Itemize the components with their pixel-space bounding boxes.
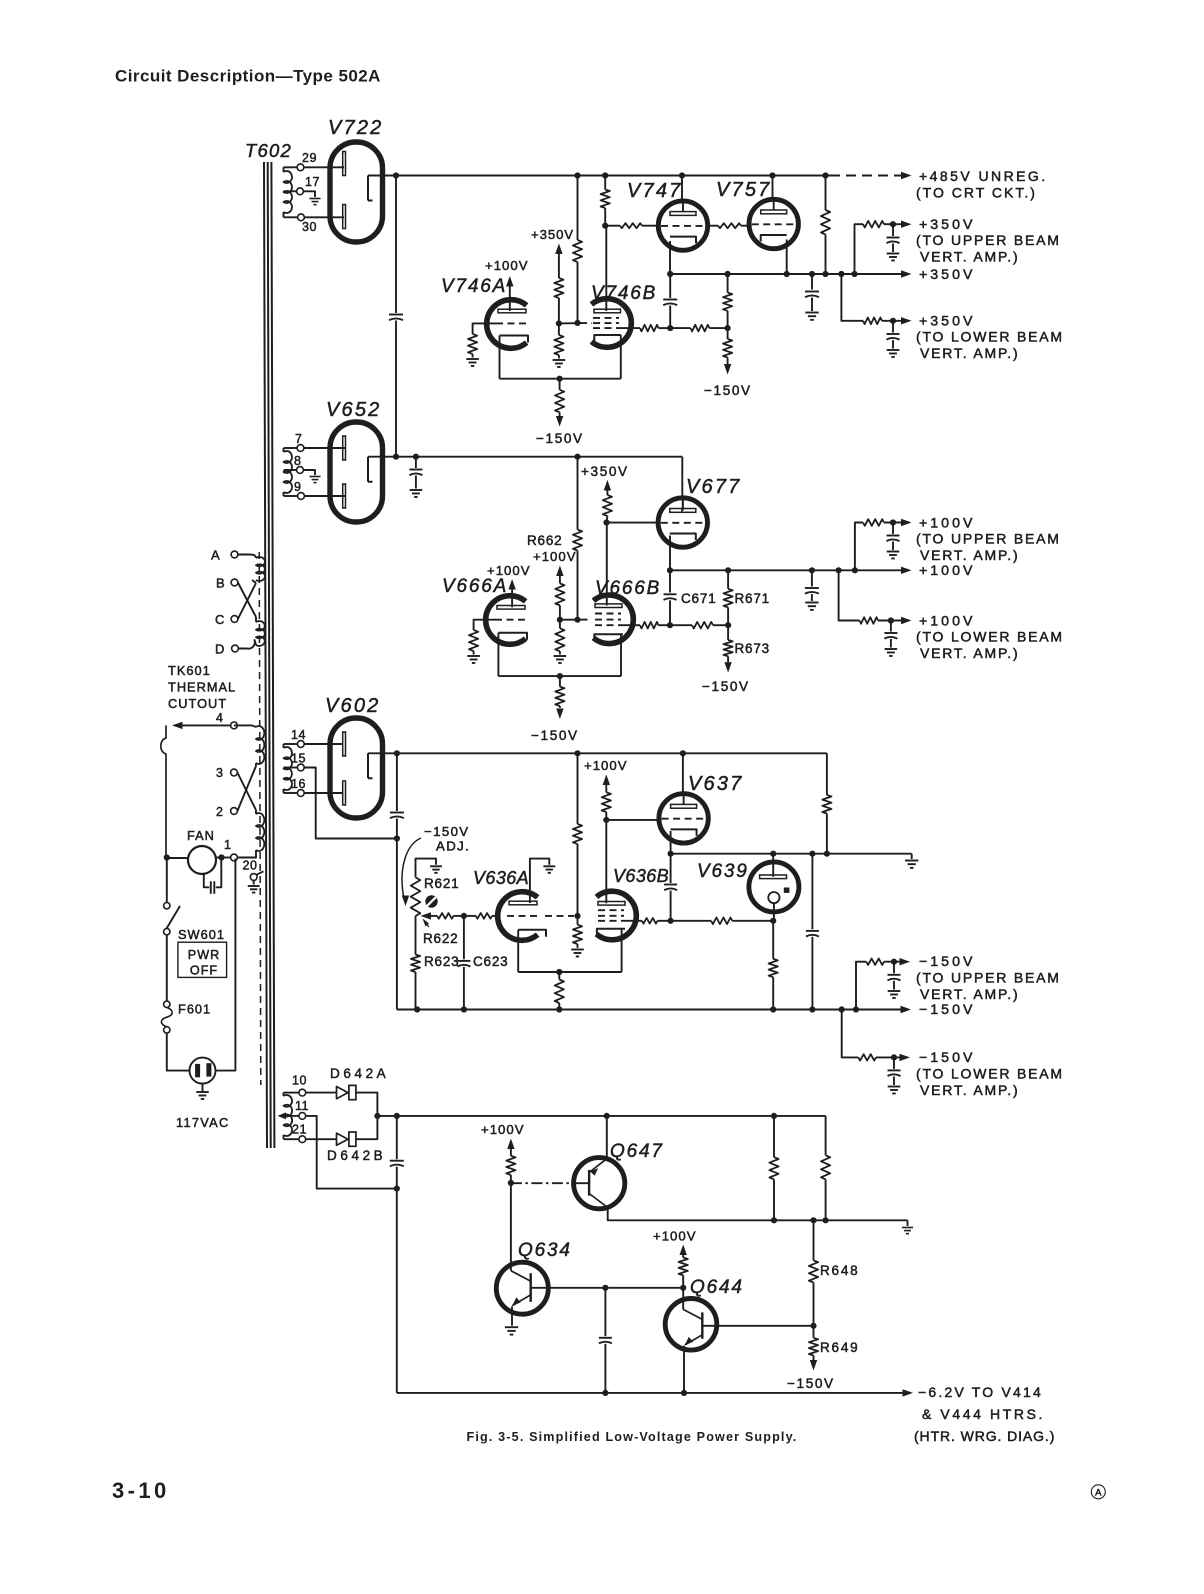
svg-text:+100V: +100V <box>485 258 529 273</box>
resistor R662 <box>573 530 582 551</box>
svg-text:B: B <box>216 576 225 591</box>
ground Q647 collector line <box>907 1220 909 1226</box>
node +350 rail x=786.7 <box>784 271 790 277</box>
arrow R649 -150V <box>810 1360 817 1371</box>
tube V639 plate <box>760 875 787 879</box>
node +100 line V677 cathode <box>667 567 673 573</box>
svg-text:F601: F601 <box>178 1002 211 1017</box>
wire V747 cathode lead down <box>669 241 671 274</box>
resistor R649 <box>813 1326 815 1338</box>
svg-text:21: 21 <box>292 1123 307 1137</box>
wire ground line <box>671 853 912 855</box>
node +100 line x=838.6 <box>836 567 842 573</box>
svg-text:+100V: +100V <box>919 516 975 532</box>
resistor +100 upper beam <box>863 519 884 526</box>
node +350 rail x=825.5 <box>822 271 828 277</box>
tube V666A plate <box>497 606 525 610</box>
wire winding to terminal 21 <box>284 1138 299 1140</box>
svg-text:PWR: PWR <box>188 948 220 962</box>
wire Q634 emitter to ground <box>511 1306 513 1325</box>
plug prong left <box>195 1064 200 1077</box>
svg-text:(TO LOWER BEAM: (TO LOWER BEAM <box>916 1066 1064 1082</box>
fuse F601 contact bottom <box>164 1027 170 1033</box>
wire terminal 16 to V602 plate 2 <box>304 792 342 794</box>
arrow +100V Q647 <box>507 1139 514 1150</box>
tube V602 envelope <box>330 718 383 818</box>
arrow -150 upper beam <box>900 958 911 965</box>
node +100 line x=811.9 <box>809 567 815 573</box>
svg-text:VERT. AMP.): VERT. AMP.) <box>920 986 1019 1002</box>
svg-text:R662: R662 <box>527 533 562 548</box>
terminal 30 <box>298 214 305 221</box>
wire terminal 15 to filter mid <box>304 768 397 839</box>
wire V757 cathode to +350 rail <box>786 240 788 275</box>
svg-text:R671: R671 <box>735 591 770 606</box>
svg-text:V677: V677 <box>686 476 742 498</box>
node V602 rail V637 plate <box>680 750 686 756</box>
svg-text:17: 17 <box>305 175 320 189</box>
wire -6.2V rail <box>397 1392 903 1394</box>
capacitor fan motor <box>210 881 212 894</box>
wire V757 plate to +485 rail <box>772 176 774 201</box>
wire R662 top <box>577 457 579 530</box>
wire terminal 9 to V652 plate 2 <box>304 495 346 497</box>
wire plug to ground <box>202 1084 204 1091</box>
wire Q647 base to Q634 collector <box>510 1183 512 1240</box>
resistor V746B output 1 <box>640 325 659 332</box>
svg-text:(TO UPPER BEAM: (TO UPPER BEAM <box>916 970 1061 986</box>
capacitor +350 rail filter <box>811 274 813 290</box>
resistor R622a wiper <box>437 913 453 919</box>
ground -150 upper beam <box>888 990 901 992</box>
resistor +100 to Q647 base <box>506 1156 515 1175</box>
tube V666B grids <box>595 613 621 615</box>
wire +100 lower beam branch <box>839 570 860 620</box>
triode V637 envelope <box>659 794 708 843</box>
wire V746A cathode to tail rail <box>499 336 501 379</box>
wire V636B output mid <box>671 920 712 922</box>
node D642 output <box>374 1113 380 1119</box>
potentiometer R621 <box>411 877 421 916</box>
svg-text:+100V: +100V <box>533 549 577 564</box>
wire winding to terminal 7 <box>284 447 298 449</box>
arrow -150V output <box>901 1006 912 1013</box>
transistor Q644 <box>665 1299 717 1351</box>
tube V666B cathode <box>594 634 623 641</box>
svg-text:+350V: +350V <box>581 464 629 479</box>
wire V677 plate lead <box>682 497 684 511</box>
node +350 upper beam <box>890 221 896 227</box>
wire V637 cathode lead <box>670 831 672 854</box>
resistor V746B output 2 <box>691 325 710 332</box>
wire crossover B <box>238 583 256 618</box>
svg-text:T602: T602 <box>245 140 292 161</box>
resistor V636 grid bias lower <box>577 916 579 925</box>
wire V666B output <box>622 624 640 626</box>
ground -150 lower beam <box>888 1086 901 1088</box>
ground +100 line filter <box>811 594 813 601</box>
wire V746 tail rail <box>500 378 621 380</box>
resistor +350 upper beam <box>863 221 884 228</box>
svg-text:V637: V637 <box>688 773 744 795</box>
wire R662 bottom <box>577 551 579 620</box>
wire terminal 17 to ground <box>303 191 315 197</box>
resistor +100 to Q644 base <box>679 1258 688 1276</box>
resistor R623 <box>411 955 420 973</box>
resistor V747-V757 coupling <box>718 223 741 228</box>
arrow -150V V746B <box>724 364 731 375</box>
fuse F601 body <box>161 1008 172 1027</box>
triode V757 plate <box>761 210 787 214</box>
wire V666B plate lead <box>606 523 608 606</box>
wire +350V rail <box>670 273 901 275</box>
arrow +100 upper beam <box>901 519 912 526</box>
svg-text:V757: V757 <box>716 179 772 201</box>
arrow -6.2V output <box>903 1389 914 1396</box>
primary winding 4-3 section <box>256 726 264 764</box>
svg-text:TK601: TK601 <box>168 663 211 678</box>
wire V666B grid dashes <box>581 619 593 621</box>
wire V746B output <box>620 327 640 329</box>
wire crossover 3 <box>237 773 256 811</box>
svg-text:VERT. AMP.): VERT. AMP.) <box>920 645 1019 661</box>
svg-text:Circuit Description—Type 502A: Circuit Description—Type 502A <box>115 67 381 86</box>
node +485 rail x=772.5 <box>769 172 775 178</box>
node -150 rail x=463.9 <box>461 1006 467 1012</box>
wire +350 rail cap column <box>669 274 671 298</box>
svg-text:14: 14 <box>291 728 306 742</box>
wire winding to terminal 11 <box>284 1115 299 1117</box>
tube V722 plate 2 <box>343 205 346 229</box>
arrow +100V bias column <box>556 566 563 577</box>
resistor V666A grid to ground <box>469 630 478 651</box>
tube V636B plate <box>598 902 625 906</box>
svg-text:−150V: −150V <box>704 383 752 398</box>
primary winding A-B section <box>256 557 265 581</box>
resistor -150 upper beam <box>866 959 884 965</box>
fan motor circle <box>188 846 216 874</box>
tube V652 plate 2 <box>343 484 346 508</box>
triode V747 envelope <box>658 201 707 250</box>
node -150 rail x=773.2 <box>770 1006 776 1012</box>
capacitor C671 <box>669 570 671 592</box>
terminal 9 <box>298 493 305 500</box>
arrow +100V V666A plate <box>508 579 515 590</box>
svg-text:V636A: V636A <box>473 868 529 888</box>
svg-text:A: A <box>1095 1488 1102 1499</box>
node +100 upper beam <box>890 519 896 525</box>
node +485 rail x=577.5 <box>574 172 580 178</box>
svg-text:(HTR. WRG. DIAG.): (HTR. WRG. DIAG.) <box>914 1428 1055 1444</box>
tube V636B cathode <box>597 929 625 936</box>
resistor V666B output 2 <box>692 622 713 629</box>
wire winding to terminal 16 <box>284 792 298 794</box>
node V652 rail cap stub <box>413 454 419 460</box>
svg-text:29: 29 <box>302 151 317 165</box>
wire V637 plate to V602 rail <box>682 753 684 794</box>
svg-text:THERMAL: THERMAL <box>168 680 236 695</box>
svg-text:(TO LOWER BEAM: (TO LOWER BEAM <box>916 629 1064 645</box>
wire fan right lead <box>216 857 231 859</box>
resistor V636B output 2 <box>711 918 732 925</box>
resistor V666 bias lower <box>559 620 561 629</box>
svg-text:Q647: Q647 <box>610 1141 664 1162</box>
tube V636A grid <box>507 915 537 917</box>
resistor V666B output 1 <box>640 622 658 629</box>
ground Q634 emitter <box>505 1326 518 1328</box>
node V746B output a <box>667 325 673 331</box>
node -150 rail x=559.3 <box>556 1006 562 1012</box>
node R648 R649 junction <box>810 1323 816 1329</box>
wire V636A plate to ground bracket <box>530 859 549 903</box>
node fan right <box>218 854 224 860</box>
triode V677 plate <box>670 509 696 513</box>
tube V652 envelope <box>330 422 383 522</box>
node -150 rail x=841.7 <box>839 1006 845 1012</box>
wire V602 output <box>368 752 397 754</box>
wire V666B cathode to tail rail <box>620 634 622 676</box>
wire V652 rail corner to V677 plate <box>681 457 683 498</box>
node V746 grid bias <box>556 320 562 326</box>
wire +485V rail <box>396 175 830 177</box>
node raw line Q647 emitter <box>604 1113 610 1119</box>
arrow -150 lower beam <box>900 1054 911 1061</box>
tube V652 cathode <box>368 457 373 482</box>
thermal cutout element TK601 <box>161 725 166 857</box>
circled A mark <box>1091 1485 1105 1499</box>
primary winding C-D section <box>256 621 265 646</box>
node Q647 collector line r1 <box>771 1217 777 1223</box>
terminal 14 <box>297 741 304 748</box>
primary winding 2-1 section <box>256 813 264 851</box>
svg-text:16: 16 <box>291 777 306 791</box>
svg-text:Q634: Q634 <box>518 1240 572 1261</box>
svg-text:R649: R649 <box>820 1340 859 1355</box>
node -150 upper beam <box>891 959 897 965</box>
node -150 rail x=856 <box>853 1006 859 1012</box>
ground R621 top <box>430 865 442 867</box>
resistor raw line to collector line 2 <box>825 1116 827 1155</box>
wire Q634 base line <box>548 1287 683 1289</box>
svg-text:V722: V722 <box>328 117 384 139</box>
tube V602 plate 2 <box>343 781 346 805</box>
ground V652 rail cap <box>410 489 423 491</box>
resistor +350 lower beam <box>863 318 882 325</box>
node -150 lower beam <box>891 1054 897 1060</box>
PWR OFF box <box>178 942 227 977</box>
wire winding to terminal 8 <box>284 469 297 471</box>
tube V722 envelope <box>330 142 383 242</box>
triode V637 grid <box>662 818 706 820</box>
resistor V666 bias upper <box>555 583 564 605</box>
wire resistor to V757 grid <box>741 225 749 227</box>
resistor V639 cathode to -150 rail <box>772 921 774 959</box>
wire +350 lower beam branch <box>841 274 863 321</box>
tube V746B grids <box>593 317 619 319</box>
svg-text:D: D <box>215 642 224 657</box>
curved arrow -150V ADJ <box>402 838 421 896</box>
tube V746A cathode <box>500 336 529 343</box>
wire V636 tail rail <box>518 971 621 973</box>
resistor V746 bias lower <box>558 323 560 335</box>
wire V652 output rail <box>396 456 682 458</box>
node raw line resistor 1 <box>771 1113 777 1119</box>
switch SW601 contact top <box>164 903 170 909</box>
wire junction to V637 grid <box>606 819 659 821</box>
node +485 rail x=605.2 <box>602 172 608 178</box>
svg-text:7: 7 <box>295 432 302 446</box>
wire crossover C <box>238 583 256 619</box>
wire SW601 to F601 <box>166 935 168 1001</box>
svg-text:R673: R673 <box>735 641 770 656</box>
svg-text:3-10: 3-10 <box>112 1478 170 1503</box>
svg-text:(TO UPPER BEAM: (TO UPPER BEAM <box>916 232 1061 248</box>
svg-text:Q644: Q644 <box>690 1277 744 1298</box>
ground terminal 8 <box>309 476 320 478</box>
node V666 grid bias <box>557 617 563 623</box>
svg-text:−150V: −150V <box>531 728 579 743</box>
wire -150 lower beam branch <box>842 1010 859 1058</box>
triode V757 envelope <box>749 199 798 248</box>
tube V636B envelope <box>596 891 636 940</box>
wire V602 rail corner column <box>826 753 828 795</box>
switch SW601 contact bottom <box>164 929 170 935</box>
svg-text:+350V: +350V <box>531 227 574 242</box>
svg-text:(TO UPPER BEAM: (TO UPPER BEAM <box>916 531 1061 547</box>
diode D642B <box>306 1138 337 1140</box>
capacitor -150 upper beam <box>893 962 895 974</box>
svg-text:20: 20 <box>243 859 258 873</box>
transformer T602 core line 1 <box>264 162 267 1148</box>
wire V677 grid to junction <box>620 522 658 524</box>
wire V636A cathode to tail rail <box>517 930 519 972</box>
wire winding to terminal 10 <box>284 1092 299 1094</box>
node Q647 collector line R648 <box>810 1217 816 1223</box>
wire V639 cathode lead <box>773 903 775 921</box>
wire +485 divider column to V746B grid <box>577 176 579 241</box>
arrow +350V bias column <box>555 244 562 255</box>
svg-text:1: 1 <box>224 838 231 852</box>
svg-text:V666A: V666A <box>442 576 508 597</box>
wire -150V rail <box>397 1009 901 1011</box>
ground plug <box>196 1091 209 1093</box>
tube V636B grids <box>598 909 624 911</box>
node -150 rail x=417.2 <box>414 1006 420 1012</box>
winding polarity arrow <box>278 1112 287 1119</box>
svg-text:C: C <box>215 612 224 627</box>
node ground line cap column <box>809 851 815 857</box>
node V746B output b <box>725 325 731 331</box>
wire V652 output <box>368 456 396 458</box>
wire terminal A to primary winding <box>238 555 256 559</box>
resistor -150 lower beam <box>858 1054 876 1060</box>
node V666B grid tie <box>574 617 580 623</box>
svg-text:V652: V652 <box>326 399 382 421</box>
svg-text:9: 9 <box>294 480 301 494</box>
arrow R673 -150V <box>724 662 731 673</box>
svg-text:VERT. AMP.): VERT. AMP.) <box>920 345 1019 361</box>
svg-text:3: 3 <box>216 766 223 780</box>
wire fan cap right lead <box>216 858 222 887</box>
node -6.2 rail Q644 emitter <box>681 1390 687 1396</box>
terminal 21 <box>299 1136 306 1143</box>
arrow +100V V746A plate <box>506 276 513 287</box>
node +100 line x=728.1 <box>725 567 731 573</box>
svg-text:+100V: +100V <box>584 758 628 773</box>
resistor V747 grid stopper <box>620 223 642 228</box>
arrow +100V V637 <box>603 775 610 786</box>
wire +100 upper beam branch <box>855 523 863 571</box>
triode V677 envelope <box>658 498 707 547</box>
svg-text:2: 2 <box>216 805 223 819</box>
node R671 bottom <box>725 622 731 628</box>
resistor +485 to V746B grid <box>573 240 582 262</box>
node +350 rail x=670.2 <box>667 271 673 277</box>
svg-text:8: 8 <box>294 454 301 468</box>
node +350 rail x=841.4 <box>838 271 844 277</box>
ground +100 lower beam <box>885 648 898 650</box>
ground at ground line end <box>911 854 913 859</box>
tube V746B envelope <box>591 299 631 348</box>
capacitor V652 rail to ground <box>415 457 417 468</box>
svg-text:10: 10 <box>292 1074 307 1088</box>
node V636 grid bias <box>574 913 580 919</box>
arrow +100V output <box>901 567 912 574</box>
node V636 tail <box>556 969 562 975</box>
svg-text:+100V: +100V <box>481 1122 525 1137</box>
svg-text:Fig. 3-5. Simplified Low-Vo: Fig. 3-5. Simplified Low-Voltage Power S… <box>467 1430 798 1444</box>
resistor R622b to V636A grid <box>464 915 476 917</box>
wire V746B grid dashes <box>580 322 592 324</box>
capacitor +350 upper beam <box>892 224 894 236</box>
winding T602 29-17-30 <box>283 167 285 172</box>
svg-text:V602: V602 <box>325 695 381 717</box>
plug prong right <box>206 1063 211 1076</box>
svg-text:−150V: −150V <box>919 954 975 970</box>
ground +100 upper beam <box>887 551 900 553</box>
node +485 rail x=682 <box>679 172 685 178</box>
wire filter mid to -6.2 rail <box>396 1189 398 1393</box>
triode V747 grid <box>661 225 705 227</box>
wire V666 tail rail <box>498 675 621 677</box>
wire base junction to Q647 <box>511 1182 574 1184</box>
svg-text:−150V: −150V <box>919 1050 975 1066</box>
wire Q644 emitter to -6.2 rail <box>683 1346 685 1393</box>
tube V746A grid <box>496 322 526 324</box>
node fan left <box>164 854 170 860</box>
transistor Q634 <box>496 1262 548 1314</box>
node V602 filter mid <box>394 835 400 841</box>
wire terminal D curl <box>238 640 256 649</box>
wire +485 to V747 grid divider <box>604 176 606 190</box>
capacitor on x=396 line <box>389 314 403 316</box>
wire V666B output mid <box>670 624 692 626</box>
arrow +100V Q644 <box>680 1245 687 1256</box>
wire -150 upper beam branch <box>856 962 866 1010</box>
svg-text:R621: R621 <box>424 876 459 891</box>
node +350 lower beam <box>890 318 896 324</box>
wire V746B cathode to tail rail <box>620 335 622 379</box>
svg-text:ADJ.: ADJ. <box>436 839 470 854</box>
wire V602 output rail <box>397 752 827 754</box>
tube V746A plate <box>498 309 526 313</box>
resistor V746A grid to ground <box>468 334 477 354</box>
wire V722 output down to V652 rail <box>395 176 397 314</box>
node -6.2 rail Q634 cap <box>602 1390 608 1396</box>
node -150 rail x=812.4 <box>809 1006 815 1012</box>
ground terminal 20 <box>253 880 255 884</box>
pot adjust slot symbol <box>425 895 437 907</box>
